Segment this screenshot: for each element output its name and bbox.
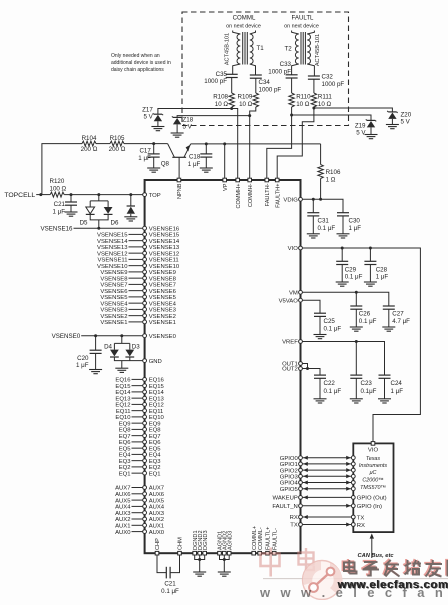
svg-text:EQ5: EQ5 [149, 446, 162, 452]
svg-text:1000 pF: 1000 pF [204, 78, 227, 85]
pin EQ8 [143, 428, 147, 432]
wire WAKEUP arrow [303, 496, 352, 498]
svg-text:C28: C28 [376, 266, 388, 273]
capacitor C20 [90, 350, 102, 353]
svg-text:EQ6: EQ6 [119, 440, 132, 446]
svg-text:AUX2: AUX2 [115, 517, 130, 523]
wire CHM lead [170, 555, 179, 573]
ground below C27 [382, 327, 395, 331]
wire stair to FAULTH+ pin [277, 108, 314, 178]
svg-text:EQ14: EQ14 [149, 390, 165, 396]
svg-text:TMS570™: TMS570™ [360, 485, 386, 491]
wire C20 leads [95, 336, 97, 370]
svg-text:EQ3: EQ3 [149, 459, 162, 465]
wire EQ3 lead [132, 460, 144, 462]
pin GPIO3 [299, 474, 303, 478]
junction clamp diode [129, 193, 132, 196]
diode D6 [104, 207, 113, 214]
wire C25 to ground [319, 316, 321, 334]
wire C26 to ground [355, 309, 357, 327]
wire VSENSE15 lead [129, 233, 144, 235]
pin GPIO (uC) [351, 468, 355, 472]
junction D5/D6 bottom [97, 227, 100, 230]
svg-text:EQ2: EQ2 [119, 465, 131, 471]
capacitor C35 [226, 74, 238, 77]
junction R111/Z20/FAULTH+ [312, 107, 315, 110]
svg-text:AUX1: AUX1 [115, 524, 130, 530]
svg-text:AUX2: AUX2 [149, 517, 164, 523]
svg-text:FAULTL: FAULTL [292, 15, 315, 22]
svg-text:C27: C27 [392, 311, 404, 318]
svg-text:C18: C18 [189, 154, 201, 161]
zener Z17 [153, 113, 163, 121]
svg-text:C21: C21 [54, 201, 66, 208]
pin FAULTH- [265, 178, 269, 182]
ground below C30 [337, 234, 350, 238]
svg-text:TX: TX [357, 515, 365, 521]
svg-text:VSENSE2: VSENSE2 [100, 314, 127, 320]
wire C32 top lead [313, 70, 316, 94]
svg-text:FAULTH+: FAULTH+ [275, 184, 281, 208]
wire VREF rail [303, 342, 385, 376]
wire R104-R105 [96, 143, 110, 145]
svg-text:D6: D6 [111, 220, 119, 227]
pin CHP [155, 551, 159, 555]
ground below C31 [307, 234, 320, 238]
ground below C26 [350, 327, 363, 331]
wire CHP lead [157, 555, 166, 573]
svg-text:FAULTH-: FAULTH- [265, 183, 271, 206]
pin COMMH+ [236, 178, 240, 182]
junction C29 [341, 247, 344, 250]
svg-text:V5VAO: V5VAO [279, 298, 299, 304]
pin VSENSE12 [143, 251, 147, 255]
svg-text:1 μF: 1 μF [349, 225, 362, 232]
wire GPIO5 bidirectional arrow [303, 488, 352, 490]
svg-text:EQ9: EQ9 [119, 421, 131, 427]
svg-text:VSENSE11: VSENSE11 [97, 258, 127, 264]
svg-text:EQ8: EQ8 [149, 428, 162, 434]
svg-text:AUX0: AUX0 [149, 530, 165, 536]
svg-text:VSENSE15: VSENSE15 [149, 233, 180, 239]
wire C17 leads [153, 144, 155, 168]
wire OUT1 [303, 364, 308, 369]
wire C23 lead [355, 342, 357, 376]
svg-text:EQ5: EQ5 [119, 446, 132, 452]
pin AUX1 [143, 523, 147, 527]
svg-text:Instruments: Instruments [359, 463, 387, 469]
pin VREF [299, 340, 303, 344]
pin DGND3 [203, 551, 207, 555]
svg-text:EQ15: EQ15 [149, 384, 165, 390]
wire C31 to ground [312, 216, 314, 234]
pin AUX3 [143, 511, 147, 515]
svg-text:Z17: Z17 [142, 107, 153, 114]
svg-text:RX: RX [290, 515, 298, 521]
pin GPIO5 [299, 487, 303, 491]
svg-text:VM: VM [289, 291, 298, 297]
capacitor C22 [314, 375, 326, 378]
pin EQ15 [143, 384, 147, 388]
svg-text:VSENSE2: VSENSE2 [149, 314, 176, 320]
pin VIO (uC) [371, 442, 375, 446]
ground below C24 [378, 399, 391, 403]
svg-text:0.1 μF: 0.1 μF [161, 588, 179, 595]
wire VSENSE11 lead [129, 258, 144, 260]
svg-text:w w w . e l e c f a n s . c o: w w w . e l e c f a n s . c o m [259, 585, 448, 600]
svg-text:D3: D3 [132, 343, 140, 350]
svg-text:0.1 μF: 0.1 μF [318, 225, 336, 232]
pin VSENSE11 [143, 258, 147, 262]
junction D4/D3 [120, 334, 123, 337]
svg-text:VSENSE13: VSENSE13 [97, 245, 128, 251]
svg-text:AUX7: AUX7 [149, 486, 164, 492]
watermark group (decorative, not labelled further) [261, 548, 314, 577]
svg-text:VSENSE6: VSENSE6 [100, 289, 128, 295]
svg-text:C25: C25 [324, 318, 336, 325]
ground below Z19 [365, 135, 378, 139]
svg-text:EQ13: EQ13 [149, 396, 165, 402]
svg-text:R105: R105 [110, 135, 125, 142]
junction C26 [355, 291, 358, 294]
ground below C20 [89, 370, 102, 374]
svg-text:Texas: Texas [366, 456, 380, 462]
ground below C21 [65, 212, 78, 216]
wire VSENSE1 lead [129, 321, 144, 323]
svg-text:COMMH+: COMMH+ [236, 184, 242, 209]
svg-text:VSENSE5: VSENSE5 [100, 295, 128, 301]
pin EQ3 [143, 459, 147, 463]
svg-text:C23: C23 [361, 380, 373, 387]
pin VSENSE0 [143, 334, 147, 338]
transformer T1 [233, 31, 241, 35]
wire FAULT_N arrow [303, 505, 352, 507]
svg-text:Q8: Q8 [161, 160, 170, 167]
svg-text:VSENSE3: VSENSE3 [149, 308, 177, 314]
svg-text:AUX5: AUX5 [149, 498, 165, 504]
svg-text:VSENSE0: VSENSE0 [52, 333, 81, 340]
wire EQ9 lead [132, 422, 144, 424]
svg-text:DGND3: DGND3 [203, 530, 209, 550]
wire VIO rail [303, 248, 421, 441]
pin EQ13 [143, 396, 147, 400]
wire C28 lead [369, 248, 371, 261]
svg-text:VSENSE14: VSENSE14 [149, 239, 180, 245]
ground below C18 [200, 168, 213, 172]
svg-text:5 V: 5 V [144, 114, 154, 121]
wire C18 leads [205, 144, 207, 168]
svg-text:R111: R111 [318, 94, 332, 101]
wire C34 top lead [255, 70, 257, 94]
pin FAULT_N [299, 504, 303, 508]
wire EQ8 lead [132, 428, 144, 430]
wire VDIG rail [303, 199, 344, 212]
wire junction to Z20 [314, 108, 393, 112]
pin VP [223, 178, 227, 182]
svg-text:additional device is used in: additional device is used in [111, 60, 171, 66]
pin DGND1 [193, 551, 197, 555]
wire RX arrow [303, 516, 352, 518]
wire VP rail to R106 [320, 144, 322, 165]
svg-text:VSENSE1: VSENSE1 [100, 320, 127, 326]
svg-text:VSENSE5: VSENSE5 [149, 295, 177, 301]
wire C29 to ground [341, 265, 343, 283]
svg-text:VSENSE10: VSENSE10 [97, 264, 128, 270]
svg-text:10 Ω: 10 Ω [215, 101, 229, 108]
svg-text:VSENSE4: VSENSE4 [100, 301, 128, 307]
svg-text:1000 pF: 1000 pF [259, 86, 282, 93]
svg-text:EQ12: EQ12 [115, 403, 130, 409]
ground below C28 [364, 282, 377, 286]
capacitor C32 [308, 76, 320, 79]
svg-text:1000 pF: 1000 pF [322, 81, 345, 88]
pin VSENSE10 [143, 264, 147, 268]
pin TX (uC) [351, 515, 355, 519]
svg-text:COMML-: COMML- [258, 527, 264, 550]
svg-text:VSENSE0: VSENSE0 [149, 334, 177, 340]
capacitor C17 [148, 154, 160, 157]
svg-text:VIO: VIO [368, 448, 379, 454]
ground below C22 [314, 399, 327, 403]
pin GPIO (uC) [351, 481, 355, 485]
svg-text:AUX5: AUX5 [115, 498, 131, 504]
wire AUX0 lead [132, 531, 144, 533]
svg-text:VSENSE6: VSENSE6 [149, 289, 177, 295]
svg-text:200 Ω: 200 Ω [109, 146, 126, 153]
junction DGND [198, 558, 201, 561]
svg-text:C17: C17 [139, 147, 151, 154]
pin EQ12 [143, 403, 147, 407]
svg-text:TOPCELL: TOPCELL [4, 192, 35, 199]
capacitor C34 [250, 75, 262, 78]
svg-text:C35: C35 [216, 71, 228, 78]
svg-text:VSENSE8: VSENSE8 [100, 276, 128, 282]
pin VSENSE13 [143, 245, 147, 249]
svg-text:EQ16: EQ16 [115, 378, 131, 384]
wire EQ5 lead [132, 447, 144, 449]
wire junction to COMMH+ pin [232, 109, 238, 179]
pin AUX6 [143, 492, 147, 496]
pin RX (uC) [351, 523, 355, 527]
pin VSENSE2 [143, 314, 147, 318]
pin TOP [143, 193, 147, 197]
svg-text:Z19: Z19 [355, 123, 366, 130]
resistor R104 [82, 141, 96, 146]
wire GPIO1 bidirectional arrow [303, 463, 352, 465]
wire Z20 to ground [391, 119, 393, 125]
wire Q8 emitter to VP rail [191, 143, 321, 145]
svg-text:GPIO5: GPIO5 [280, 487, 299, 493]
wire C27 to ground [388, 309, 390, 327]
svg-text:AUX1: AUX1 [149, 524, 164, 530]
pin VSENSE9 [143, 270, 147, 274]
pin EQ2 [143, 465, 147, 469]
wire C29 lead [341, 248, 343, 261]
wire VSENSE0 [81, 335, 143, 337]
wire [220, 555, 230, 572]
junction C20 [94, 334, 97, 337]
svg-text:VSENSE8: VSENSE8 [149, 276, 177, 282]
pin GND [143, 359, 147, 363]
svg-text:R120: R120 [50, 178, 65, 185]
wire GPIO4 bidirectional arrow [303, 482, 352, 484]
pin GPIO1 [299, 462, 303, 466]
wire VM rail [303, 292, 389, 306]
junction R110/Z19/FAULTH- [290, 114, 293, 117]
svg-text:R106: R106 [326, 169, 341, 176]
svg-text:AUX6: AUX6 [115, 492, 131, 498]
capacitor C25 [314, 313, 326, 316]
svg-text:1 Ω: 1 Ω [326, 176, 336, 183]
wire R105 to Q8 collector [124, 143, 168, 145]
wire CAN bus arrow [371, 538, 373, 558]
wire EQ16 lead [132, 378, 144, 380]
svg-text:Only needed when an: Only needed when an [111, 53, 160, 59]
pin GPIO (In) (uC) [351, 504, 355, 508]
svg-text:on next device: on next device [284, 24, 319, 30]
wire R108 to junction [231, 107, 233, 109]
wire R106 to VDIG rail [320, 179, 322, 200]
resistor R110 [289, 93, 294, 107]
pin VSENSE1 [143, 320, 147, 324]
pin EQ7 [143, 434, 147, 438]
pin EQ10 [143, 415, 147, 419]
pin VIO [299, 246, 303, 250]
pin AGND2 [223, 551, 227, 555]
svg-text:D4: D4 [104, 343, 112, 350]
svg-text:EQ8: EQ8 [119, 428, 132, 434]
svg-text:C2000™: C2000™ [362, 478, 383, 484]
svg-text:VSENSE12: VSENSE12 [149, 251, 179, 257]
junction C23 [355, 340, 358, 343]
svg-text:VSENSE4: VSENSE4 [149, 301, 177, 307]
svg-text:1 μF: 1 μF [391, 388, 404, 395]
wire AUX7 lead [132, 487, 144, 489]
resistor R109 [253, 93, 258, 107]
junction D5/D6 [97, 193, 100, 196]
svg-text:VSENSE14: VSENSE14 [97, 239, 128, 245]
wire VSENSE5 lead [129, 296, 144, 298]
pin AUX0 [143, 530, 147, 534]
svg-text:AUX4: AUX4 [149, 505, 165, 511]
wire C35 top lead [232, 70, 233, 94]
pin NPNB [177, 178, 181, 182]
svg-text:4.7 μF: 4.7 μF [392, 318, 410, 325]
svg-text:VSENSE7: VSENSE7 [100, 283, 127, 289]
svg-text:EQ10: EQ10 [115, 415, 131, 421]
svg-text:on next device: on next device [226, 24, 261, 30]
pin VSENSE4 [143, 301, 147, 305]
wire VSENSE7 lead [129, 283, 144, 285]
svg-text:GPIO1: GPIO1 [280, 462, 298, 468]
pin EQ5 [143, 446, 147, 450]
pin VSENSE5 [143, 295, 147, 299]
svg-text:R108: R108 [213, 94, 228, 101]
wire EQ15 lead [132, 385, 144, 387]
junction R109/Z18/COMMH- [248, 114, 251, 117]
resistor R108 [229, 93, 234, 107]
resistor R105 [110, 141, 124, 146]
wire VSENSE13 lead [129, 246, 144, 248]
wire [195, 555, 205, 572]
svg-text:FAULTL+: FAULTL+ [266, 527, 272, 550]
wire C28 to ground [369, 265, 371, 283]
wire TOPCELL to R120 [36, 194, 50, 196]
diode D3 [125, 350, 134, 357]
wire AUX6 lead [132, 493, 144, 495]
wire to Z17 [158, 109, 232, 115]
svg-text:0.1 μF: 0.1 μF [324, 325, 342, 332]
pin EQ6 [143, 440, 147, 444]
ground below C23 [350, 399, 363, 403]
wire D4/D3 top bar [114, 336, 129, 350]
pin GPIO2 [299, 468, 303, 472]
wire VSENSE12 lead [129, 252, 144, 254]
svg-text:1 μF: 1 μF [138, 155, 151, 162]
svg-text:EQ13: EQ13 [115, 396, 131, 402]
svg-text:GPIO (In): GPIO (In) [357, 504, 382, 510]
pin VSENSE14 [143, 239, 147, 243]
pin WAKEUP [299, 496, 303, 500]
svg-text:AUX0: AUX0 [115, 530, 131, 536]
wire C26 lead [355, 292, 357, 306]
svg-text:VSENSE1: VSENSE1 [149, 320, 176, 326]
pin GPIO0 [299, 456, 303, 460]
wire stair to FAULTH- pin [267, 115, 292, 178]
svg-text:EQ4: EQ4 [149, 453, 162, 459]
ground below C29 [336, 282, 349, 286]
wire R110 to junction [291, 107, 293, 115]
svg-text:GPIO2: GPIO2 [280, 468, 298, 474]
wire C31 lead [312, 199, 314, 212]
svg-text:R109: R109 [238, 94, 253, 101]
svg-text:AUX6: AUX6 [149, 492, 165, 498]
daisy-chain dashed box [182, 12, 349, 126]
junction VP [223, 142, 226, 145]
svg-text:D5: D5 [80, 220, 88, 227]
svg-text:EQ11: EQ11 [116, 409, 131, 415]
svg-text:C20: C20 [77, 355, 89, 362]
svg-text:C32: C32 [322, 74, 334, 81]
wire junction to Z19 [292, 115, 371, 120]
svg-text:Z18: Z18 [183, 117, 194, 124]
svg-text:0.1μF: 0.1μF [361, 388, 377, 395]
svg-text:C31: C31 [318, 218, 330, 225]
capacitor C27 [383, 306, 395, 309]
pin AUX5 [143, 498, 147, 502]
svg-text:AUX3: AUX3 [115, 511, 131, 517]
pin V5VAO [299, 298, 303, 302]
ground below Z18 [171, 133, 184, 137]
svg-text:AUX4: AUX4 [115, 505, 131, 511]
pin COMML+ [252, 551, 256, 555]
wire VSENSE8 lead [129, 277, 144, 279]
svg-text:1 μF: 1 μF [188, 161, 201, 168]
svg-text:VSENSE12: VSENSE12 [97, 251, 127, 257]
svg-text:VSENSE3: VSENSE3 [100, 308, 128, 314]
pin EQ16 [143, 378, 147, 382]
zener Z18 [172, 116, 182, 124]
wire EQ4 lead [132, 453, 144, 455]
zener Z19 [366, 119, 376, 127]
pin VSENSE7 [143, 283, 147, 287]
svg-text:COMMH-: COMMH- [248, 183, 254, 207]
wire EQ7 lead [132, 435, 144, 437]
wire VP pin [224, 144, 226, 178]
svg-text:RX: RX [357, 523, 365, 529]
svg-text:GND: GND [149, 359, 162, 365]
svg-text:EQ4: EQ4 [119, 453, 132, 459]
